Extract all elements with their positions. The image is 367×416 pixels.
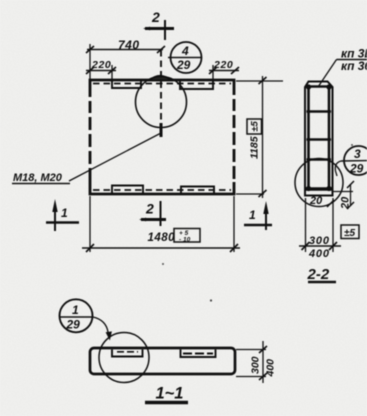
rebar cage vertical bars (309, 85, 330, 191)
rebar rung 5 bottom (306, 187, 333, 190)
label M18, M20 (12, 172, 70, 184)
svg-text:29: 29 (349, 162, 364, 176)
center line vertical (160, 50, 162, 123)
recess notch top-left (112, 81, 141, 88)
lifting loop bump top center (149, 76, 171, 81)
balloon 1/29 (60, 299, 94, 332)
svg-text:±5: ±5 (344, 228, 355, 239)
svg-text:1~1: 1~1 (156, 385, 184, 403)
dimension 740 line (86, 44, 165, 80)
svg-text:220: 220 (213, 59, 233, 71)
section mark 1 left (46, 199, 79, 231)
detail circle on 1-1 notch (99, 333, 149, 383)
dimension 220 right (209, 59, 239, 80)
section 2-2 outline (305, 82, 333, 196)
view label 1-1 (145, 385, 188, 403)
dimension 220 left (86, 59, 116, 80)
balloon 4/29 (168, 42, 202, 73)
leader from КП label to cage (318, 60, 337, 88)
tolerance box ±5 (2-2) (341, 225, 359, 239)
recess notch top-right (180, 81, 213, 89)
section mark 2 top: digit (151, 9, 160, 25)
svg-text:29: 29 (176, 58, 191, 72)
dimension 740 text (118, 38, 140, 52)
svg-text:300: 300 (309, 235, 330, 247)
tolerance box +5/-10 (174, 229, 200, 244)
view label 2-2 (307, 266, 337, 283)
svg-text:400: 400 (265, 359, 277, 378)
detail circle on section bottom (295, 159, 343, 207)
section mark 2 top: cut line cross (143, 20, 174, 40)
svg-text:3: 3 (354, 147, 361, 161)
dimension 1185 (236, 76, 283, 198)
section mark 1 right (244, 201, 272, 230)
loop leg thick bar (160, 123, 163, 137)
label КП top right (337, 47, 367, 74)
recess notch bottom-right (181, 187, 214, 194)
leader M18 (69, 133, 161, 181)
hidden dashed line top (93, 83, 231, 85)
recess notch bottom-left (112, 186, 143, 194)
svg-text:М18, М20: М18, М20 (13, 172, 63, 184)
svg-text:2-2: 2-2 (307, 266, 330, 283)
svg-text:2: 2 (145, 201, 154, 217)
1-1 notch left (112, 350, 143, 357)
svg-text:1480: 1480 (148, 232, 176, 244)
detail circle on loop (136, 77, 187, 128)
svg-text:- 10: - 10 (179, 237, 191, 244)
rebar rung 3 (307, 138, 332, 141)
view 1-1 bar outline (90, 348, 235, 374)
dimension 1480 (82, 196, 240, 252)
leader from balloon 3/29 to detail circle (335, 161, 341, 176)
tolerance box ±5 (1185) (247, 119, 262, 134)
leader from balloon 1/29 (93, 317, 112, 341)
svg-text:±5: ±5 (250, 121, 261, 132)
svg-text:220: 220 (91, 59, 111, 71)
balloon 3/29 (341, 146, 367, 176)
svg-text:1: 1 (61, 206, 68, 220)
svg-text:400: 400 (308, 248, 330, 260)
rebar hook dots (306, 84, 332, 191)
svg-text:300: 300 (250, 356, 262, 374)
svg-text:1: 1 (72, 303, 79, 317)
rebar rung 2 (307, 110, 332, 113)
small 20 dimension right (333, 181, 354, 210)
svg-text:2: 2 (151, 9, 160, 25)
svg-text:20: 20 (309, 195, 323, 207)
section mark 2 bottom (139, 201, 166, 227)
rebar rung 1 (307, 85, 332, 88)
svg-text:кп 36: кп 36 (341, 59, 367, 73)
svg-text:1185: 1185 (249, 136, 261, 159)
svg-text:20: 20 (340, 196, 352, 210)
main plan view outline (90, 80, 234, 194)
speck noise (162, 144, 353, 302)
svg-text:29: 29 (66, 318, 81, 332)
svg-text:4: 4 (181, 44, 189, 58)
dimension 300/400 of section 2-2 (299, 198, 341, 260)
label 20 bottom of section (309, 195, 334, 207)
rebar rung 4 (307, 158, 332, 161)
svg-text:1: 1 (249, 208, 256, 222)
hidden dashed line bottom (93, 189, 231, 191)
dimension 300/400 of 1-1 (236, 341, 277, 383)
1-1 notch right (181, 350, 216, 358)
